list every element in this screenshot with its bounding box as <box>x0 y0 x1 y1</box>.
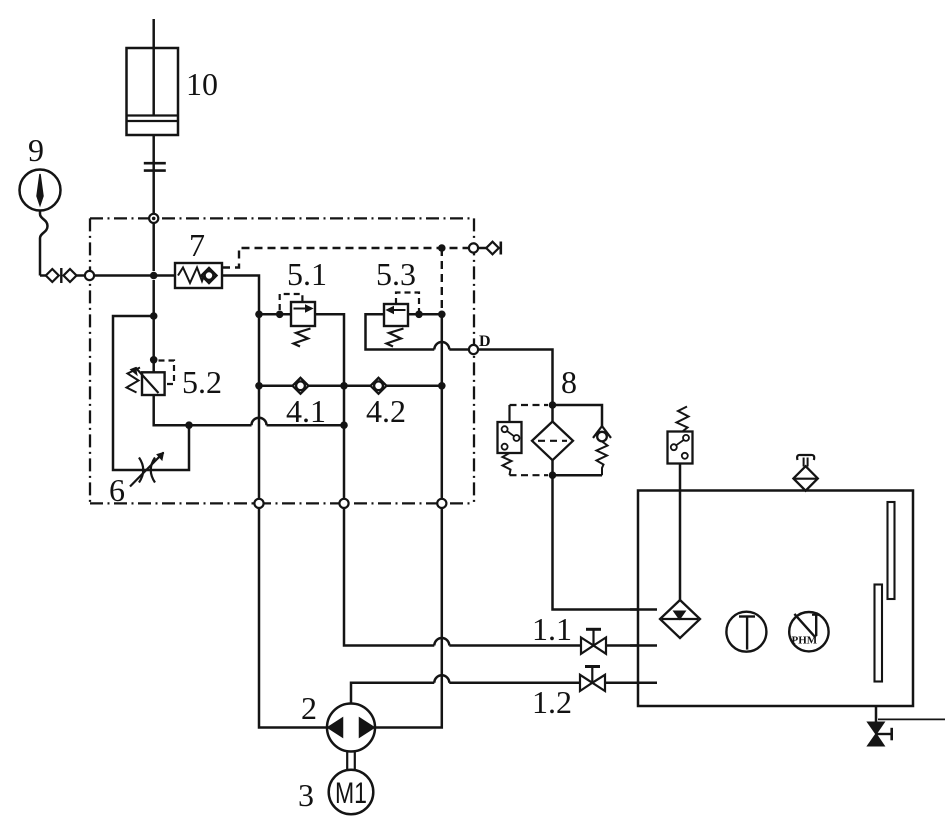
shut-off valve 1.2 <box>532 667 605 721</box>
shaft pump-motor <box>347 752 355 771</box>
node: 5.1 pilot tee <box>276 311 284 319</box>
svg-text:PHM: PHM <box>792 635 818 647</box>
wire: line 1.2 jump and run to tank <box>434 675 449 683</box>
suction strainer <box>660 600 700 638</box>
wire: cylinder to port <box>152 135 155 271</box>
svg-text:M1: M1 <box>335 777 367 810</box>
check valve 4.2 <box>366 378 406 429</box>
wire: coupler to port <box>77 274 86 277</box>
wire: 5.1 input <box>259 313 291 316</box>
port node (boundary, cylinder line) <box>149 214 158 223</box>
node: throttle riser tee <box>185 421 193 429</box>
reducing valve 5.1 <box>280 256 327 347</box>
wire: cylinder rod stub <box>152 19 155 116</box>
svg-text:D: D <box>479 333 491 350</box>
cylinder 10 <box>127 48 219 135</box>
wire: return pipe inside tank (redraw over wall) <box>630 608 657 611</box>
wire: bypass branch (left) <box>113 316 154 470</box>
svg-text:7: 7 <box>189 227 205 263</box>
filter 8 <box>532 364 577 479</box>
port node D (boundary right) <box>469 345 478 354</box>
quick coupler (block side) <box>64 269 77 282</box>
pressure gauge 9 <box>20 132 61 211</box>
svg-text:3: 3 <box>298 777 314 813</box>
quick coupler (gauge side) <box>46 269 59 282</box>
wire: throttle to riser <box>162 425 189 470</box>
wire: valve 7 out, down to pump suction side <box>222 276 259 499</box>
node: middle <box>340 382 348 390</box>
wire: below port to pump inlet <box>259 508 327 728</box>
thermometer <box>726 612 766 652</box>
port node (boundary bottom 1) <box>254 499 263 508</box>
port node (boundary bottom 2) <box>339 499 348 508</box>
wire jump: loop over vertical <box>434 342 449 349</box>
node: main junction at gauge tee <box>150 272 158 280</box>
wire: port to test coupler <box>478 247 486 250</box>
port node (boundary right, pilot) <box>469 243 478 252</box>
motor 3 (M1) <box>298 770 373 815</box>
reducing valve 5.3 <box>376 256 419 347</box>
wire: line 1.1 jump and run to tank <box>434 638 449 645</box>
svg-text:4.2: 4.2 <box>366 393 406 429</box>
node: 5.3 pilot tee <box>415 311 423 319</box>
svg-text:1.2: 1.2 <box>532 684 572 720</box>
tank <box>638 491 913 707</box>
wire: strainer to thermostat <box>679 464 682 601</box>
wire: D to filter top <box>478 350 552 406</box>
wire: port to valve 7 <box>94 274 175 277</box>
relief valve 5.2 <box>127 361 223 401</box>
pipe union fitting <box>144 163 166 170</box>
wire jump: collector over suction line <box>252 418 267 426</box>
svg-text:5.3: 5.3 <box>376 256 416 292</box>
node: left end <box>255 382 263 390</box>
level indicator sight tube (upper) <box>888 502 895 599</box>
node: bypass tee <box>150 312 158 320</box>
svg-text:10: 10 <box>186 66 218 102</box>
test coupler (plugged) <box>486 242 501 255</box>
throttle valve 6 <box>109 453 164 509</box>
check valve 4.1 <box>286 378 326 429</box>
node: pilot tee <box>438 244 446 252</box>
bypass check valve (filter) <box>553 405 612 475</box>
svg-text:8: 8 <box>561 364 577 400</box>
shut-off valve 1.1 <box>532 611 606 654</box>
wire: 5.2 out to collector line <box>154 395 252 425</box>
svg-text:9: 9 <box>28 132 44 168</box>
svg-text:5.1: 5.1 <box>287 256 327 292</box>
wire: vertical x442 down to pump outlet <box>441 314 444 499</box>
coupling tick <box>60 268 62 283</box>
wire: 5.3 output to dashed riser <box>408 313 442 316</box>
level gauge <box>789 612 828 651</box>
svg-text:5.2: 5.2 <box>182 364 222 400</box>
wire: below port down and right (line 1.1 start) <box>344 508 434 646</box>
wire: gauge line to port <box>40 274 46 277</box>
manifold boundary (dash-dot enclosure) <box>90 218 474 503</box>
svg-text:6: 6 <box>109 472 125 508</box>
pilot line from valve 7 (dashed) <box>222 248 469 314</box>
wire: main vertical into block (to 5.2) <box>152 280 155 372</box>
drain line <box>875 706 878 723</box>
clogging switch (filter) <box>498 405 549 475</box>
thermostat switch (tank top) <box>668 407 693 464</box>
wire: jump to port D <box>449 348 469 351</box>
drain valve <box>868 722 892 746</box>
node: 5.3 out to vertical <box>438 311 446 319</box>
wire: gauge hose <box>40 211 48 276</box>
node: suction line to 5.1 <box>255 311 263 319</box>
node: collector to x344 <box>340 421 348 429</box>
wire: 5.1 out, down to line 1.1 <box>315 314 344 499</box>
port node (boundary, gauge line) <box>85 271 94 280</box>
check valve 7 (pilot operated) <box>175 227 222 288</box>
node: right end <box>438 382 446 390</box>
svg-text:4.1: 4.1 <box>286 393 326 429</box>
wire: collector to x344 <box>267 424 345 427</box>
wire: check-valve line 4.1/4.2 <box>259 385 442 388</box>
svg-text:2: 2 <box>301 690 317 726</box>
svg-text:1.1: 1.1 <box>532 611 572 647</box>
hand pump 2 <box>301 690 375 752</box>
air breather <box>793 455 817 491</box>
node: 5.2 pilot tee <box>150 356 158 364</box>
wire: filter to tank (return) <box>553 475 658 609</box>
level indicator sight tube (lower) <box>875 585 883 682</box>
wire: 5.3 tank loop to port D <box>366 314 435 349</box>
port node (boundary bottom 3) <box>437 499 446 508</box>
wire: pump to line 1.2 <box>351 683 434 704</box>
